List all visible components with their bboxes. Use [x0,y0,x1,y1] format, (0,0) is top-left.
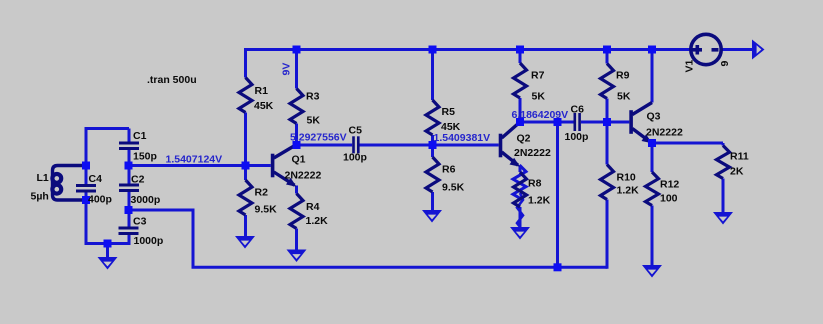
wire R8 to ground [519,207,522,229]
ground [235,236,255,249]
wire R6 to ground [431,192,434,212]
svg-text:1.2K: 1.2K [306,215,329,227]
wire C6 node down to feedback rail [556,122,559,267]
wire rail to Q3 collector [651,48,654,103]
svg-text:Q2: Q2 [517,132,531,144]
svg-text:100p: 100p [343,152,367,164]
node rail-R3 [293,46,301,54]
node C1-C2 tap [125,162,133,170]
node Q3 emitter node [648,139,656,147]
resistor R1 [239,78,252,113]
svg-text:9: 9 [719,61,731,67]
svg-text:C2: C2 [131,174,145,186]
svg-text:150p: 150p [133,151,157,163]
ground [713,212,733,225]
svg-text:R1: R1 [255,85,269,97]
resistor R9 [601,64,614,99]
node feedback rail junction [554,263,562,271]
resistor R5 [426,100,439,135]
svg-text:3000p: 3000p [131,194,161,206]
node L1 bottom tap [82,196,90,204]
svg-text:2N2222: 2N2222 [285,170,322,182]
wire R12 to ground [651,206,654,267]
wire C4 to tank bottom [85,191,88,244]
wire tank right branch to C1 [128,129,131,142]
svg-text:L1: L1 [37,172,49,184]
wire R4 to ground [295,229,298,251]
svg-text:6.1864209V: 6.1864209V [512,109,569,121]
node C6 left node [554,118,562,126]
wire rail to output arrow [721,48,753,51]
wire C2 to C3 [128,192,131,227]
svg-text:C4: C4 [89,173,103,185]
resistor R10 [601,165,614,200]
wire rail to R7 [519,48,522,63]
svg-text:5K: 5K [617,91,631,103]
svg-text:9.5K: 9.5K [442,182,465,194]
svg-text:2K: 2K [730,166,744,178]
capacitor C1 [119,142,139,145]
svg-text:1.5407124V: 1.5407124V [166,154,223,166]
node Q3 base node [603,118,611,126]
resistor R8 [514,172,527,207]
wire tank left branch upper [85,127,88,184]
svg-text:Q3: Q3 [647,111,661,123]
wire R1 to R2 through base node [244,113,247,181]
svg-text:C5: C5 [349,125,363,137]
svg-text:1.2K: 1.2K [528,195,551,207]
svg-text:5K: 5K [532,91,546,103]
node Q2 base node [429,141,437,149]
wire emitter node to R12 [651,143,654,172]
wire rail to R3 [295,48,298,89]
wire rail to R5 [431,48,434,100]
capacitor C2 [119,184,139,187]
svg-text:45K: 45K [254,100,274,112]
wire collector node to C6 [520,121,574,124]
voltage source V1 [691,34,721,64]
svg-text:R3: R3 [306,91,320,103]
svg-text:100: 100 [660,193,678,205]
wire tank bottom [85,242,131,245]
svg-text:5µh: 5µh [31,191,49,203]
resistor R6 [426,157,439,192]
resistor R7 [514,63,527,98]
svg-text:V1: V1 [684,59,696,72]
svg-text:R10: R10 [617,172,636,184]
wire R7 to Q2 collector node [519,98,522,122]
svg-text:5.2927556V: 5.2927556V [290,132,347,144]
svg-text:R11: R11 [730,151,749,163]
svg-text:2N2222: 2N2222 [514,147,551,159]
wire feedback bottom rail [192,266,608,269]
inductor L1 [52,166,86,201]
svg-text:C3: C3 [133,216,147,228]
svg-text:R6: R6 [442,164,456,176]
wire C2-C3 tap [129,209,195,212]
node rail-R7 [516,46,524,54]
svg-text:Q1: Q1 [292,154,306,166]
wire R9 to Q3 base node [606,99,609,123]
node rail-R5 [429,46,437,54]
svg-text:C1: C1 [133,130,147,142]
capacitor C4 [76,184,96,187]
svg-text:.tran 500u: .tran 500u [147,74,197,86]
wire R5 to node [431,135,434,145]
node C2-C3 tap node [125,206,133,214]
wire Q2 emitter to R8 [519,167,522,173]
svg-text:C6: C6 [571,104,585,116]
transistor Q3 (NPN 2N2222) [629,103,652,144]
wire R3 to collector node [295,124,298,146]
wire top power rail [246,48,692,51]
wire Q1 emitter to R4 [295,186,298,194]
capacitor C3 [119,227,139,230]
resistor R4 [290,194,303,229]
svg-text:R4: R4 [306,201,320,213]
wire node to R10 [606,122,609,165]
wire tap corner vertical [192,209,195,268]
wire Q3 emitter to R11 [652,142,723,145]
resistor R2 [239,180,252,215]
wire rail to R1 [244,48,247,78]
svg-text:R12: R12 [660,179,679,191]
wire C5 to Q2 base node [359,144,499,147]
ground [642,265,662,278]
wire rail to R9 [606,48,609,64]
ground [510,227,530,240]
resistor R12 [646,172,659,206]
svg-text:1000p: 1000p [134,235,164,247]
wire R2 to ground [244,215,247,238]
transistor Q1 (NPN 2N2222) [271,145,297,187]
wire tank top [86,127,129,130]
transistor Q2 (NPN 2N2222) [499,122,520,167]
ground [287,250,307,263]
wire tank ground stem [106,244,109,259]
svg-text:1.5409381V: 1.5409381V [434,132,491,144]
node Q2 collector node [516,118,524,126]
node tank ground node [104,240,112,248]
svg-text:400p: 400p [88,194,112,206]
wire C6 to Q3 base [581,121,629,124]
svg-text:R2: R2 [255,187,269,199]
resistor R8 ghost overdraw (narrow) [517,193,523,227]
wire R11 to ground [722,179,725,214]
svg-text:R8: R8 [528,177,542,189]
node L1 top tap [82,162,90,170]
svg-text:R9: R9 [616,70,630,82]
svg-text:R5: R5 [442,106,456,118]
resistor R11 [717,146,730,179]
ground [98,257,118,270]
capacitor C6 [574,113,577,131]
node rail-R9 [603,46,611,54]
node rail-Q3 collector [648,46,656,54]
ground [422,210,442,223]
svg-text:5K: 5K [307,115,321,127]
resistor R3 [290,89,303,124]
svg-text:9V: 9V [281,63,293,76]
wire collector node to C5 [297,144,353,147]
svg-text:2N2222: 2N2222 [646,127,683,139]
node Q1 base node [242,162,250,170]
wire C3 to tank bottom [128,235,131,246]
wire to R11 top [722,143,725,146]
wire R10 to feedback rail [606,200,609,269]
ground (right-pointing output) [752,40,765,60]
capacitor C5 [352,136,355,153]
svg-text:100p: 100p [565,131,589,143]
node Q1 collector node [293,141,301,149]
svg-text:9.5K: 9.5K [255,204,278,216]
wire C1 to C2 [128,150,131,184]
svg-text:R7: R7 [531,70,545,82]
resistor R8 ghost overdraw [513,165,526,198]
svg-text:1.2K: 1.2K [617,185,640,197]
wire node to R6 [431,145,434,157]
wire tank tap to Q1 base [129,164,271,167]
